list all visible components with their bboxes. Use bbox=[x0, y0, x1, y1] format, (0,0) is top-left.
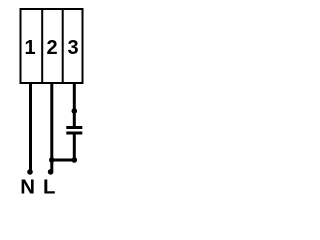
terminal dot L bbox=[48, 169, 54, 175]
wire N (terminal 1 down) bbox=[29, 84, 32, 172]
corner node bbox=[72, 157, 78, 163]
svg-text:1: 1 bbox=[24, 37, 35, 59]
wire L (terminal 2 down) bbox=[50, 84, 53, 172]
wire capacitor to L bbox=[52, 159, 75, 162]
wire terminal 3 to capacitor bbox=[73, 84, 76, 128]
svg-text:L: L bbox=[43, 176, 55, 198]
terminal divider 1-2 bbox=[41, 8, 43, 84]
capacitor C top plate bbox=[66, 126, 82, 129]
terminal divider 2-3 bbox=[62, 8, 64, 84]
svg-text:3: 3 bbox=[68, 37, 79, 59]
terminal dot N bbox=[27, 169, 33, 175]
wire capacitor down bbox=[73, 133, 76, 160]
svg-text:N: N bbox=[20, 176, 35, 198]
svg-text:2: 2 bbox=[46, 37, 57, 59]
junction node on wire L bbox=[49, 157, 55, 163]
terminal block outline bbox=[21, 9, 83, 83]
capacitor C bottom plate bbox=[66, 132, 82, 135]
node on wire 3 bbox=[72, 108, 78, 114]
